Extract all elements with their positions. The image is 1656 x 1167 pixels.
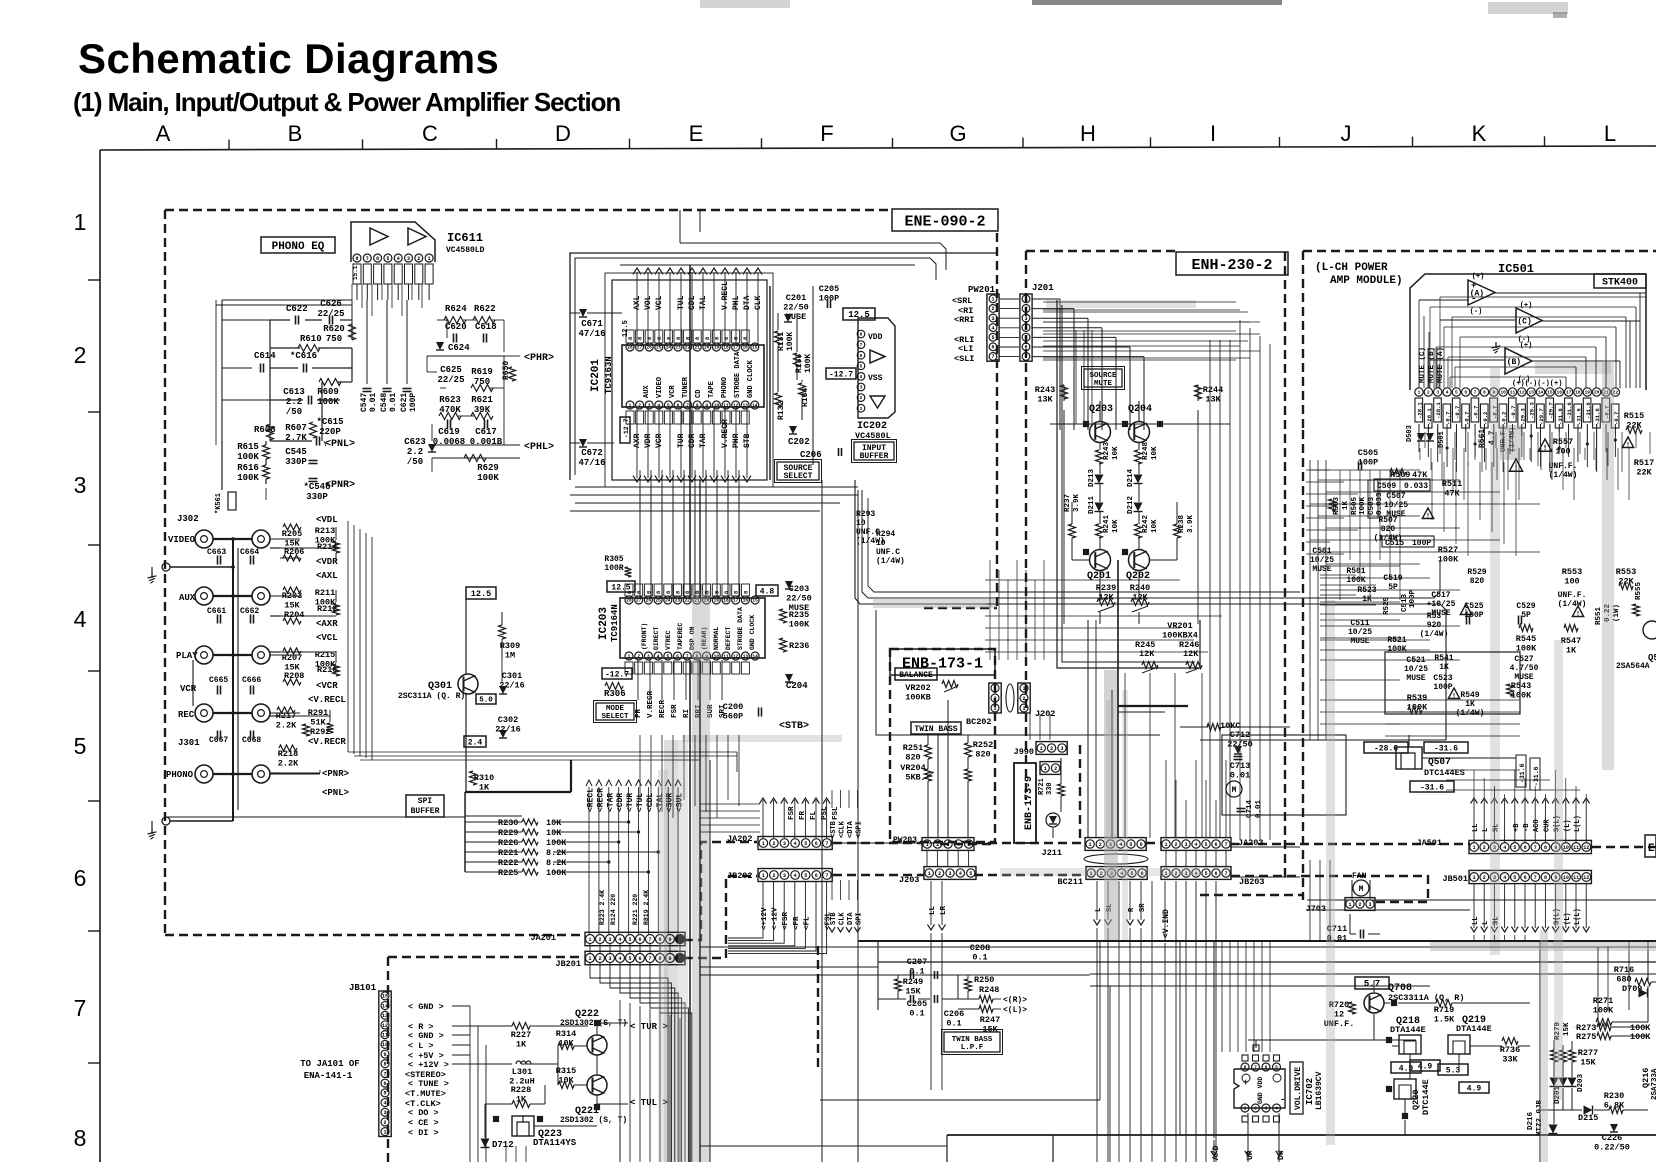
svg-text:FR: FR <box>635 708 643 718</box>
ENH inner shield rect <box>1057 300 1200 668</box>
boxed value 4.9 a <box>1391 1062 1421 1073</box>
svg-text:<V.RECR: <V.RECR <box>308 737 346 747</box>
svg-text:<RRI: <RRI <box>954 315 974 325</box>
warning triangle 1 <box>1538 439 1551 451</box>
svg-text:C665: C665 <box>209 676 228 685</box>
svg-text:4.9: 4.9 <box>1399 1064 1414 1073</box>
svg-text:SOURCE: SOURCE <box>1089 372 1117 380</box>
svg-text:R241: R241 <box>1103 514 1111 533</box>
svg-text:C301: C301 <box>502 671 522 681</box>
svg-text:-0.7: -0.7 <box>1445 412 1452 425</box>
wire vertical x878 <box>877 940 879 1010</box>
svg-text:TUNER: TUNER <box>682 376 690 398</box>
svg-text:Q204: Q204 <box>1128 404 1152 415</box>
wire bottom box corner <box>1052 1135 1054 1162</box>
svg-text:DTA144E: DTA144E <box>1390 1025 1426 1035</box>
svg-text:L: L <box>1482 828 1490 832</box>
svg-text:17: 17 <box>1566 390 1572 396</box>
svg-text:R736: R736 <box>1500 1045 1520 1055</box>
wire ic202 area <box>777 313 779 330</box>
cable ellipse BC202-J202 <box>1006 684 1014 712</box>
svg-text:820: 820 <box>1470 577 1485 586</box>
svg-text:10/25: 10/25 <box>1404 665 1428 674</box>
wire lch pin drops <box>1418 424 1420 432</box>
svg-text:C208: C208 <box>970 943 990 953</box>
svg-text:2SD1302 (S, T): 2SD1302 (S, T) <box>560 1116 627 1125</box>
wire lch horizontals y560-660 left <box>1320 565 1400 567</box>
grey mark top center <box>700 0 790 8</box>
pad q220 e <box>1402 1113 1407 1118</box>
transistor Q218 box <box>1399 1035 1421 1054</box>
svg-text:V.RECR: V.RECR <box>647 690 655 718</box>
svg-text:8: 8 <box>1483 390 1486 396</box>
svg-text:TAL: TAL <box>699 295 708 310</box>
svg-text:C205: C205 <box>819 284 839 294</box>
svg-text:16: 16 <box>743 598 749 604</box>
svg-text:4: 4 <box>860 374 863 380</box>
svg-text:C507: C507 <box>1386 492 1405 501</box>
svg-text:0.1: 0.1 <box>972 953 987 963</box>
svg-text:-29.3: -29.3 <box>1519 408 1526 425</box>
svg-text:<TUR: <TUR <box>626 793 635 812</box>
svg-text:R553: R553 <box>1562 567 1582 577</box>
svg-text:R221 220: R221 220 <box>632 894 639 925</box>
svg-text:<AXL: <AXL <box>316 571 338 581</box>
svg-text:DIRECT: DIRECT <box>653 626 660 650</box>
svg-text:H: H <box>1080 121 1096 146</box>
svg-text:<PHR>: <PHR> <box>524 353 554 364</box>
wire MUTE verticals <box>1418 348 1420 388</box>
svg-text:C613: C613 <box>283 387 305 397</box>
svg-text:-31.6: -31.6 <box>1575 408 1582 425</box>
svg-text:TO JA101 OF: TO JA101 OF <box>300 1059 359 1069</box>
svg-text:(L): (L) <box>1564 819 1572 832</box>
svg-text:330P: 330P <box>285 457 307 467</box>
svg-text:2SC311A (Q. R): 2SC311A (Q. R) <box>398 692 465 701</box>
svg-text:IC203: IC203 <box>598 607 610 640</box>
svg-text:C505: C505 <box>1358 448 1378 458</box>
svg-text:< L >: < L > <box>408 1041 434 1051</box>
svg-text:3: 3 <box>407 256 410 262</box>
svg-text:R515: R515 <box>1624 411 1644 421</box>
wire ja501 bundle up <box>1473 770 1475 798</box>
svg-text:3: 3 <box>783 841 786 847</box>
svg-text:-0.7: -0.7 <box>1473 406 1480 419</box>
svg-text:1: 1 <box>762 841 765 847</box>
connector BC211 <box>1086 867 1147 880</box>
svg-text:2: 2 <box>598 937 601 943</box>
svg-text:VR204: VR204 <box>900 763 926 773</box>
svg-text:2: 2 <box>1358 902 1361 908</box>
svg-text:2: 2 <box>1022 696 1025 702</box>
svg-text:R211: R211 <box>315 588 335 598</box>
transistor Q222 <box>587 1035 607 1055</box>
wire J201 fanout right <box>1032 298 1060 300</box>
svg-text:DTC144E: DTC144E <box>1421 1079 1431 1115</box>
svg-text:<V.RECL: <V.RECL <box>308 695 346 705</box>
svg-text:TUR: TUR <box>677 433 686 448</box>
svg-text:100K: 100K <box>1511 691 1532 701</box>
svg-text:D214: D214 <box>1127 468 1135 487</box>
svg-text:6: 6 <box>74 865 87 891</box>
svg-text:4: 4 <box>1503 875 1506 881</box>
wire enh horizontals to lch <box>1043 309 1240 311</box>
svg-text:6: 6 <box>1024 345 1027 351</box>
svg-text:DTC144ES: DTC144ES <box>1424 768 1465 778</box>
svg-text:< DO >: < DO > <box>408 1108 439 1118</box>
svg-text:1: 1 <box>860 406 863 412</box>
svg-text:9: 9 <box>668 956 671 962</box>
svg-text:/50: /50 <box>407 457 423 467</box>
svg-text:(B): (B) <box>1507 358 1521 367</box>
svg-text:R539: R539 <box>1407 693 1427 703</box>
svg-text:<(L)>: <(L)> <box>1003 1006 1027 1015</box>
wire bottom mid horizontals <box>820 1099 1100 1101</box>
svg-text:15: 15 <box>752 598 758 604</box>
svg-text:-12.7: -12.7 <box>829 370 853 379</box>
wire verticals x822 x858 long <box>821 480 823 1162</box>
svg-text:NORMAL: NORMAL <box>713 626 720 650</box>
svg-text:5: 5 <box>1204 842 1207 848</box>
svg-text:FSL: FSL <box>832 806 840 820</box>
svg-text:R223 2.4K: R223 2.4K <box>599 890 606 925</box>
svg-text:R615: R615 <box>237 442 259 452</box>
warning triangle 4 <box>1422 508 1433 519</box>
svg-text:DTA114YS: DTA114YS <box>533 1138 577 1148</box>
svg-text:11: 11 <box>382 1032 388 1038</box>
svg-text:R716: R716 <box>1614 965 1634 975</box>
svg-text:-31.6: -31.6 <box>1533 766 1540 786</box>
svg-text:-29.3: -29.3 <box>1529 402 1536 419</box>
svg-text:5.7: 5.7 <box>1364 979 1380 989</box>
dashed bus right of JA501 <box>1592 846 1656 848</box>
svg-text:10: 10 <box>382 1042 388 1048</box>
svg-text:3: 3 <box>1368 902 1371 908</box>
wire vr201 outputs down <box>1124 673 1126 838</box>
svg-text:R315: R315 <box>556 1066 576 1076</box>
svg-text:1: 1 <box>1418 390 1421 396</box>
svg-text:2: 2 <box>1024 306 1027 312</box>
svg-text:1: 1 <box>1024 297 1027 303</box>
svg-text:12: 12 <box>1583 875 1589 881</box>
svg-text:R225: R225 <box>498 868 518 878</box>
label box VOL.DRIVE <box>1290 1062 1303 1114</box>
wire horizontal y940 bus <box>858 940 1656 942</box>
svg-text:47/16: 47/16 <box>578 458 605 468</box>
wire horizontals y880-960 left of ja501 <box>1230 846 1300 848</box>
wire phono eq net <box>270 319 290 321</box>
wire lch y770 horizontals <box>1446 769 1520 771</box>
svg-text:17: 17 <box>733 345 739 351</box>
wire lpf <box>878 974 906 976</box>
svg-text:2: 2 <box>1427 390 1430 396</box>
svg-text:47/16: 47/16 <box>578 329 605 339</box>
svg-text:VIDEO: VIDEO <box>656 377 664 398</box>
wire j202 down bundle <box>1029 714 1031 740</box>
svg-text:2: 2 <box>1174 842 1177 848</box>
svg-text:-28.1: -28.1 <box>1426 408 1433 425</box>
wire IC611 area verticals <box>366 300 368 384</box>
svg-text:<STB>: <STB> <box>779 721 809 732</box>
rounded loop shield 3 <box>868 498 1300 592</box>
svg-text:-31.6: -31.6 <box>1566 402 1573 419</box>
svg-text:R230: R230 <box>498 818 518 828</box>
signal arrows below BC211 <box>1096 881 1098 920</box>
svg-text:PHONO: PHONO <box>166 770 194 780</box>
svg-text:J211: J211 <box>1042 848 1062 858</box>
wire lch left column verticals 2 <box>1339 470 1341 600</box>
svg-text:< GND >: < GND > <box>408 1002 444 1012</box>
wire top horizontals mid <box>620 264 915 266</box>
svg-text:14: 14 <box>1538 390 1544 396</box>
svg-text:<RECL: <RECL <box>587 788 596 812</box>
svg-text:CLK: CLK <box>754 295 763 310</box>
boxed value 5.0 <box>476 694 496 704</box>
svg-text:C302: C302 <box>498 715 518 725</box>
svg-text:-31.6: -31.6 <box>1434 744 1458 753</box>
motor FAN <box>1353 880 1369 896</box>
svg-text:L(L): L(L) <box>1574 908 1582 925</box>
svg-text:R237: R237 <box>1064 494 1072 512</box>
svg-text:2: 2 <box>383 1120 386 1126</box>
wire ENH verticals right x1210-1230 <box>1209 340 1211 838</box>
svg-text:7: 7 <box>825 841 828 847</box>
warning triangle 6 <box>1572 606 1583 617</box>
cable ellipse J211-BC211 <box>1084 854 1148 864</box>
svg-text:3.9K: 3.9K <box>1073 493 1081 512</box>
resistor R247 <box>979 1006 993 1013</box>
svg-text:Q220: Q220 <box>1411 1090 1421 1110</box>
boxed value 4.8 IC203 <box>756 585 778 596</box>
svg-text:22: 22 <box>684 598 690 604</box>
dashed vertical ENB-173-9 right <box>1079 745 1081 842</box>
svg-text:R247: R247 <box>980 1015 1000 1025</box>
svg-text:R228: R228 <box>511 1085 531 1095</box>
boxed value 2.4 <box>464 736 486 747</box>
wire jack right stubs <box>270 538 300 540</box>
svg-text:3: 3 <box>946 842 949 848</box>
svg-text:5: 5 <box>383 1091 386 1097</box>
svg-text:R248: R248 <box>979 985 999 995</box>
svg-text:-31.6: -31.6 <box>1557 408 1564 425</box>
wire matrix verticals <box>335 527 337 540</box>
svg-text:R541: R541 <box>1434 654 1453 663</box>
svg-text:R553: R553 <box>1616 567 1636 577</box>
wire ladder feed <box>465 821 522 823</box>
wire phono eq extra nets <box>222 319 270 321</box>
svg-text:1K: 1K <box>516 1040 527 1050</box>
svg-text:R243: R243 <box>1035 385 1055 395</box>
svg-text:1: 1 <box>1348 902 1351 908</box>
svg-text:C668: C668 <box>242 736 261 745</box>
svg-text:9: 9 <box>705 403 708 409</box>
wire far right verticals <box>1647 940 1649 982</box>
svg-text:7: 7 <box>383 1071 386 1077</box>
svg-text:3: 3 <box>993 686 996 692</box>
svg-text:1: 1 <box>1044 766 1047 772</box>
svg-text:6: 6 <box>1214 871 1217 877</box>
svg-text:R314: R314 <box>556 1029 576 1039</box>
svg-text:R226: R226 <box>498 838 518 848</box>
svg-text:19: 19 <box>714 345 720 351</box>
wire twin bass <box>927 735 929 745</box>
svg-text:D501: D501 <box>1438 431 1446 448</box>
svg-text:C617: C617 <box>475 427 497 437</box>
grey band connector bus <box>682 735 842 742</box>
svg-text:-31.6: -31.6 <box>1585 402 1592 419</box>
svg-text:13K: 13K <box>1205 395 1221 405</box>
op-amp IC501 A <box>1468 280 1495 305</box>
dashed box ENB-173-1 <box>890 649 995 842</box>
svg-text:<-12V: <-12V <box>772 907 780 930</box>
wire IC611 pins down <box>356 284 358 300</box>
svg-text:16: 16 <box>1557 390 1563 396</box>
svg-text:<CDL: <CDL <box>646 793 655 812</box>
wire jack bus verticals <box>232 539 234 821</box>
wire lch bottom horizontals <box>1307 899 1656 901</box>
svg-text:C529: C529 <box>1516 602 1535 611</box>
svg-text:2: 2 <box>860 395 863 401</box>
svg-text:TWIN BASS: TWIN BASS <box>952 1036 993 1044</box>
svg-text:D213: D213 <box>1088 468 1096 487</box>
svg-text:MODE: MODE <box>606 705 625 713</box>
connector J202 <box>1018 683 1030 713</box>
IC IC501 outline <box>1410 274 1646 390</box>
svg-text:15K: 15K <box>1580 1058 1596 1068</box>
wire R310 heavy L <box>465 791 571 793</box>
svg-text:14: 14 <box>752 403 758 409</box>
boxed value 5.3 <box>1438 1064 1468 1075</box>
svg-text:C619: C619 <box>438 427 460 437</box>
svg-text:25: 25 <box>655 598 661 604</box>
svg-text:3: 3 <box>647 654 650 660</box>
svg-text:Q301: Q301 <box>428 681 452 692</box>
wire lch mid rows 2 <box>1306 469 1330 471</box>
wire jb501 bundle bottom <box>1473 935 1475 941</box>
svg-text:C672: C672 <box>581 448 603 458</box>
svg-text:2.2: 2.2 <box>407 447 423 457</box>
svg-text:B: B <box>288 121 303 146</box>
svg-text:1: 1 <box>928 871 931 877</box>
wire enb9 <box>1060 758 1062 784</box>
svg-text:22/25: 22/25 <box>437 375 464 385</box>
svg-text:2: 2 <box>1050 746 1053 752</box>
svg-text:J: J <box>1341 121 1352 146</box>
svg-text:4.7/50: 4.7/50 <box>1510 664 1539 673</box>
svg-text:5: 5 <box>1204 871 1207 877</box>
connector J203 <box>924 867 976 880</box>
svg-text:VCL: VCL <box>655 295 664 310</box>
svg-text:JA201: JA201 <box>530 933 556 943</box>
svg-text:C527: C527 <box>1514 655 1533 664</box>
svg-text:100P: 100P <box>1409 589 1417 608</box>
svg-text:R619: R619 <box>471 367 493 377</box>
svg-text:4: 4 <box>74 606 87 632</box>
pad q708 <box>1391 1000 1396 1005</box>
svg-text:1: 1 <box>428 256 431 262</box>
svg-text:R629: R629 <box>477 463 499 473</box>
svg-text:R292: R292 <box>310 727 330 737</box>
svg-text:0.1: 0.1 <box>946 1019 961 1029</box>
svg-text:6: 6 <box>638 937 641 943</box>
svg-text:+: + <box>1471 281 1476 291</box>
svg-text:R230: R230 <box>1604 1091 1624 1101</box>
IC IC702 bottom pads <box>1242 1116 1248 1122</box>
svg-text:C547: C547 <box>360 393 369 412</box>
label box TWIN BASS LPF <box>944 1032 1000 1052</box>
svg-text:13K: 13K <box>1037 395 1053 405</box>
svg-text:IC702: IC702 <box>1305 1078 1315 1105</box>
wire lch right column verticals <box>1424 432 1426 448</box>
svg-text:-31.6: -31.6 <box>1594 408 1601 425</box>
svg-text:6: 6 <box>815 873 818 879</box>
wire c521 cluster horizontals <box>1385 699 1520 701</box>
svg-text:R249: R249 <box>903 977 923 987</box>
IC IC611 pin row <box>353 254 361 262</box>
warning triangle 7 <box>1448 688 1459 699</box>
svg-text:+: + <box>1243 1078 1248 1088</box>
grey smudge J203 bus <box>1000 868 1200 876</box>
svg-text:R545: R545 <box>1516 634 1536 644</box>
svg-text:20: 20 <box>704 345 710 351</box>
svg-text:R124 220: R124 220 <box>610 894 617 925</box>
svg-text:R557: R557 <box>1553 437 1573 447</box>
wire PW201-J201 links <box>999 298 1019 300</box>
svg-text:0.0068: 0.0068 <box>433 437 465 447</box>
label box SOURCE MUTE <box>1084 369 1122 387</box>
svg-text:R204: R204 <box>284 610 304 620</box>
svg-text:33K: 33K <box>1502 1055 1518 1065</box>
transistor Q220 box <box>1394 1079 1416 1099</box>
svg-text:M: M <box>1232 786 1237 795</box>
svg-text:5: 5 <box>991 335 994 341</box>
svg-text:C622: C622 <box>286 304 308 314</box>
svg-text:FSR: FSR <box>671 704 679 718</box>
svg-text:6: 6 <box>376 256 379 262</box>
svg-text:R242: R242 <box>1142 514 1150 533</box>
svg-text:15K: 15K <box>1563 1022 1571 1036</box>
boxed value 4.9 c <box>1459 1082 1489 1093</box>
svg-text:AUX: AUX <box>643 385 651 398</box>
svg-text:12: 12 <box>1519 390 1525 396</box>
svg-text:R250: R250 <box>974 975 994 985</box>
wire ENH lower horizontals <box>985 579 1180 581</box>
svg-text:L: L <box>1095 908 1103 912</box>
svg-text:5: 5 <box>967 842 970 848</box>
svg-text:UNF.C: UNF.C <box>876 548 900 557</box>
svg-text:2.2K: 2.2K <box>276 721 297 731</box>
dashed JB201 right jog <box>684 876 757 958</box>
svg-text:R222: R222 <box>498 858 518 868</box>
svg-text:12.5: 12.5 <box>471 589 491 599</box>
svg-text:8: 8 <box>696 403 699 409</box>
svg-text:12K: 12K <box>1139 649 1155 659</box>
svg-text:10K: 10K <box>546 828 562 838</box>
svg-text:4: 4 <box>383 1100 386 1106</box>
svg-text:R275: R275 <box>1576 1032 1596 1042</box>
svg-text:3: 3 <box>783 873 786 879</box>
svg-text:<DTA: <DTA <box>847 820 855 838</box>
svg-text:L(L): L(L) <box>1574 815 1582 832</box>
wire lch left verticals <box>1309 460 1311 740</box>
svg-text:R248: R248 <box>1142 441 1150 460</box>
svg-text:BALANCE: BALANCE <box>899 671 933 680</box>
wire IC702 feed verticals <box>1221 941 1223 1052</box>
label box ENH-230-2 <box>1176 252 1288 275</box>
svg-text:15K: 15K <box>284 601 300 611</box>
svg-text:4.9: 4.9 <box>1418 1062 1433 1071</box>
dashed vertical x818 <box>817 946 819 1068</box>
